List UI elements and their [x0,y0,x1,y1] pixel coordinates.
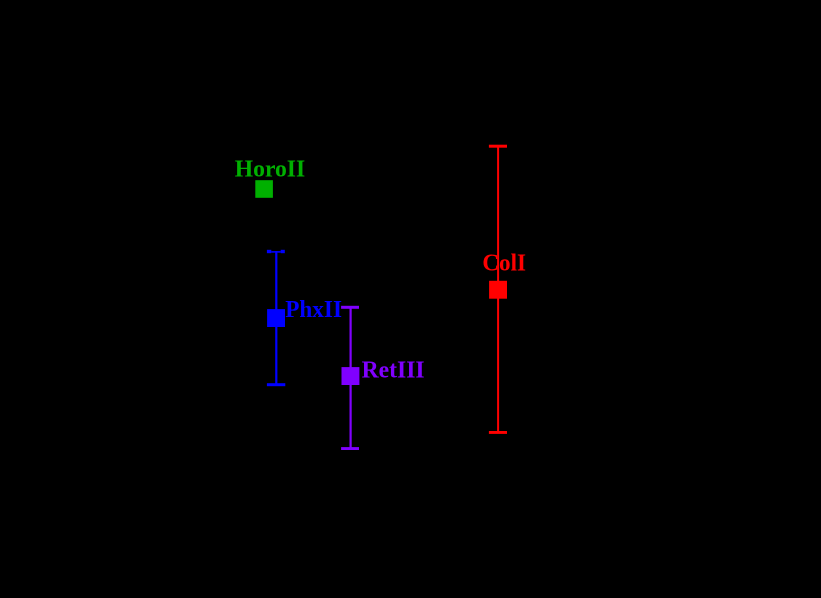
svg-text:RetIII: RetIII [362,357,425,384]
error bar RetIII (violet) [341,306,359,450]
marker ColI (red square) [489,281,507,299]
svg-text:PhxII: PhxII [285,296,342,323]
svg-text:ColI: ColI [482,249,526,276]
marker RetIII (violet square) [342,367,360,385]
svg-text:HoroII: HoroII [235,156,305,183]
marker PhxII (blue square) [267,309,285,327]
error bar PhxII (blue) [267,250,285,386]
error bar ColI (red) [489,145,507,434]
marker HoroII (green square) [255,180,273,198]
